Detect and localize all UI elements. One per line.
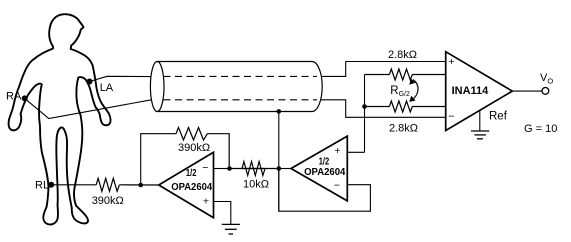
cable inner conductor top (dashed) bbox=[164, 75, 318, 77]
svg-text:2.8kΩ: 2.8kΩ bbox=[388, 49, 417, 61]
shielded cable cylinder bbox=[150, 62, 322, 112]
wire: top conductor to +rail bbox=[322, 62, 446, 77]
svg-text:INA114: INA114 bbox=[452, 85, 490, 97]
svg-text:RA: RA bbox=[6, 91, 22, 103]
Ref pin to ground bbox=[479, 110, 481, 131]
svg-text:+: + bbox=[203, 195, 209, 207]
svg-text:−: − bbox=[448, 110, 454, 122]
resistor 390k feedback bbox=[176, 128, 229, 169]
wire: follower output to 10k bbox=[279, 168, 291, 170]
svg-text:1/2: 1/2 bbox=[186, 168, 197, 179]
resistor 10k bbox=[230, 162, 279, 176]
cable inner conductor bottom (dashed) bbox=[164, 99, 318, 101]
electrode dot LA bbox=[87, 79, 93, 85]
wire: + input to ground bbox=[214, 202, 231, 225]
svg-text:LA: LA bbox=[100, 82, 114, 94]
svg-text:OPA2604: OPA2604 bbox=[304, 167, 346, 178]
wire RA to cable bbox=[25, 98, 152, 118]
svg-text:2.8kΩ: 2.8kΩ bbox=[389, 122, 418, 134]
svg-text:G = 10: G = 10 bbox=[524, 123, 557, 135]
ground (opamp +) bbox=[222, 224, 240, 234]
ground (Ref) bbox=[471, 131, 489, 139]
resistor RG/2 top bbox=[365, 69, 446, 80]
wire: follower + input to RG midpoint bbox=[347, 151, 364, 153]
electrode dot RL bbox=[48, 182, 54, 188]
node RL-drive output bbox=[138, 183, 143, 188]
wire: RG midpoint vertical bbox=[364, 75, 366, 153]
node follower output bbox=[277, 166, 282, 171]
wire: RL to 390k bbox=[51, 184, 96, 186]
svg-text:OPA2604: OPA2604 bbox=[171, 182, 212, 193]
wire: follower - feedback loop bbox=[279, 169, 371, 212]
feedback 390k loop bbox=[141, 134, 176, 185]
node RG midpoint bbox=[362, 104, 367, 109]
svg-text:10kΩ: 10kΩ bbox=[243, 179, 269, 191]
electrode dot RA bbox=[22, 95, 28, 101]
patient body silhouette bbox=[9, 14, 111, 224]
op-amp INA114 triangle bbox=[446, 52, 513, 131]
wire: bottom conductor to -rail bbox=[321, 100, 446, 118]
svg-text:390kΩ: 390kΩ bbox=[178, 142, 210, 154]
node shield tap bbox=[277, 109, 282, 114]
resistor RG/2 bottom bbox=[365, 101, 446, 112]
svg-text:RL: RL bbox=[35, 180, 49, 192]
gain-adjust arrow bbox=[411, 80, 418, 101]
svg-text:Ref: Ref bbox=[489, 110, 508, 122]
wire LA to cable bbox=[90, 76, 152, 81]
node inverting input bbox=[227, 166, 232, 171]
op-amp U2b follower triangle bbox=[291, 136, 347, 201]
svg-text:−: − bbox=[334, 180, 340, 192]
svg-text:+: + bbox=[448, 56, 454, 68]
svg-text:+: + bbox=[334, 145, 340, 157]
svg-text:−: − bbox=[202, 162, 208, 174]
terminal VO bbox=[542, 88, 549, 95]
wire: - input bbox=[214, 168, 230, 170]
op-amp U2a RL drive triangle bbox=[159, 152, 214, 217]
output wire bbox=[512, 90, 542, 92]
svg-text:390kΩ: 390kΩ bbox=[92, 195, 124, 207]
resistor 390k RL bbox=[96, 178, 159, 191]
wire: shield drive vertical bbox=[278, 111, 280, 211]
